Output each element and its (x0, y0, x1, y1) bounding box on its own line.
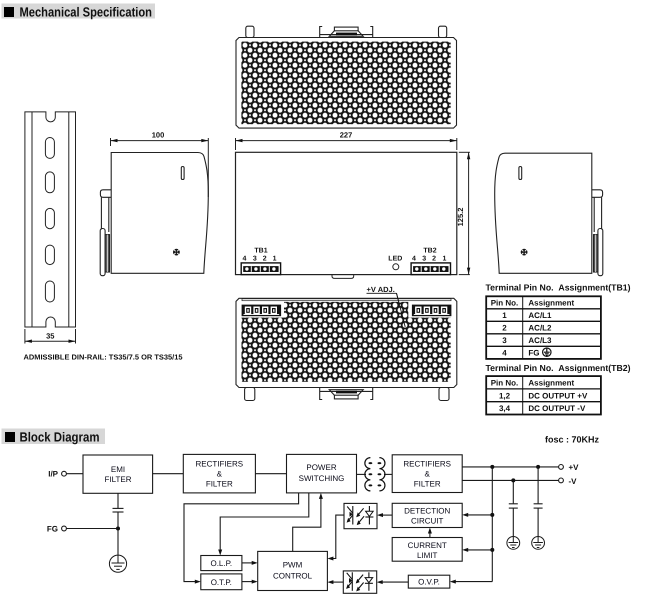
svg-text:AC/L2: AC/L2 (528, 324, 552, 333)
svg-text:4: 4 (502, 349, 507, 358)
svg-text:ADMISSIBLE DIN-RAIL: TS35/7.5: ADMISSIBLE DIN-RAIL: TS35/7.5 OR TS35/15 (24, 353, 183, 362)
svg-text:1: 1 (273, 255, 277, 262)
svg-text:2: 2 (432, 255, 436, 262)
svg-text:+V: +V (569, 463, 580, 472)
svg-text:RECTIFIERS: RECTIFIERS (403, 460, 451, 469)
svg-text:-V: -V (569, 477, 578, 486)
svg-text:227: 227 (340, 131, 353, 140)
svg-text:Block Diagram: Block Diagram (20, 430, 100, 445)
svg-text:TB1: TB1 (254, 247, 267, 254)
svg-text:&: & (425, 470, 431, 479)
svg-text:O.L.P.: O.L.P. (210, 559, 232, 568)
svg-text:PWM: PWM (283, 561, 303, 570)
svg-text:O.V.P.: O.V.P. (418, 578, 440, 587)
svg-text:1: 1 (442, 255, 446, 262)
svg-text:Pin No.: Pin No. (491, 379, 519, 388)
svg-text:Assignment: Assignment (528, 299, 574, 308)
svg-text:+V ADJ.: +V ADJ. (367, 285, 395, 294)
svg-text:3,4: 3,4 (499, 404, 511, 413)
svg-text:fosc : 70KHz: fosc : 70KHz (545, 435, 600, 445)
svg-text:CURRENT: CURRENT (408, 541, 447, 550)
svg-text:SWITCHING: SWITCHING (299, 474, 345, 483)
svg-text:3: 3 (253, 255, 257, 262)
svg-text:Terminal Pin No. Assignment(T: Terminal Pin No. Assignment(TB2) (486, 363, 631, 373)
svg-text:O.T.P.: O.T.P. (211, 578, 232, 587)
svg-text:FILTER: FILTER (414, 480, 441, 489)
svg-text:FILTER: FILTER (105, 475, 132, 484)
svg-text:DC OUTPUT +V: DC OUTPUT +V (528, 391, 588, 400)
svg-text:CIRCUIT: CIRCUIT (411, 517, 444, 526)
svg-text:POWER: POWER (306, 463, 336, 472)
svg-text:Pin No.: Pin No. (491, 299, 519, 308)
svg-text:Assignment: Assignment (528, 379, 574, 388)
svg-text:Terminal Pin No. Assignment(T: Terminal Pin No. Assignment(TB1) (486, 283, 631, 293)
svg-text:3: 3 (502, 336, 507, 345)
svg-text:&: & (217, 470, 223, 479)
svg-text:AC/L1: AC/L1 (528, 311, 552, 320)
svg-text:100: 100 (152, 131, 165, 140)
svg-text:DC OUTPUT -V: DC OUTPUT -V (528, 404, 586, 413)
svg-text:FILTER: FILTER (206, 480, 233, 489)
svg-text:FG: FG (47, 525, 58, 534)
svg-text:TB2: TB2 (423, 247, 436, 254)
svg-text:CONTROL: CONTROL (273, 572, 313, 581)
svg-text:I/P: I/P (48, 470, 58, 479)
svg-text:RECTIFIERS: RECTIFIERS (196, 460, 244, 469)
svg-text:3: 3 (422, 255, 426, 262)
svg-text:LED: LED (388, 255, 402, 262)
svg-text:2: 2 (263, 255, 267, 262)
svg-text:1,2: 1,2 (499, 391, 511, 400)
svg-text:1: 1 (502, 311, 507, 320)
svg-text:4: 4 (412, 255, 416, 262)
svg-text:FG: FG (528, 349, 539, 358)
svg-text:2: 2 (502, 324, 507, 333)
svg-text:AC/L3: AC/L3 (528, 336, 552, 345)
svg-text:LIMIT: LIMIT (417, 551, 438, 560)
svg-text:DETECTION: DETECTION (404, 507, 450, 516)
svg-text:Mechanical Specification: Mechanical Specification (20, 4, 153, 19)
svg-text:EMI: EMI (111, 465, 125, 474)
svg-text:35: 35 (46, 332, 54, 341)
svg-text:4: 4 (243, 255, 247, 262)
